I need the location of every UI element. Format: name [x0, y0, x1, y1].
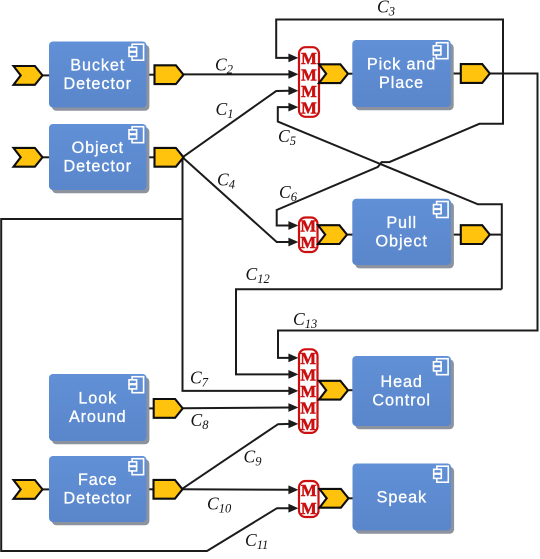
svg-text:Detector: Detector [64, 75, 132, 93]
svg-text:Bucket: Bucket [70, 57, 125, 75]
svg-text:Object: Object [376, 233, 428, 251]
svg-text:M: M [300, 233, 316, 252]
svg-text:M: M [301, 98, 317, 117]
svg-text:Around: Around [69, 408, 127, 426]
svg-text:Speak: Speak [377, 489, 427, 507]
svg-text:Control: Control [372, 392, 430, 410]
svg-text:M: M [301, 499, 317, 518]
svg-text:Detector: Detector [64, 158, 132, 176]
svg-text:Detector: Detector [64, 490, 132, 508]
svg-text:M: M [300, 415, 316, 434]
svg-text:Pull: Pull [386, 214, 417, 232]
svg-text:Pick and: Pick and [367, 56, 436, 74]
svg-text:Object: Object [72, 139, 124, 157]
svg-text:M: M [301, 481, 317, 500]
svg-text:Head: Head [380, 373, 422, 391]
svg-text:Face: Face [78, 471, 118, 489]
svg-text:Look: Look [78, 390, 117, 408]
svg-text:Place: Place [379, 74, 424, 92]
